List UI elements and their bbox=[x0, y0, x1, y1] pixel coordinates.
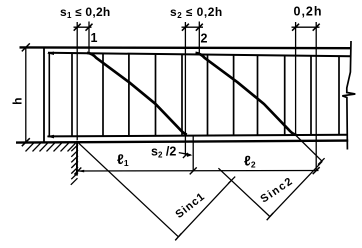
h dimension line bbox=[25, 47, 27, 142]
stirrup 7 bbox=[233, 55, 235, 135]
stirrup 8 bbox=[257, 55, 259, 135]
s1 tick left bbox=[74, 24, 81, 31]
beam top line bbox=[20, 46, 352, 49]
s2 tick left bbox=[182, 24, 189, 31]
bar1 end extension line (down to below beam) bbox=[184, 22, 186, 156]
tick at bottom of bar1-end extension bbox=[183, 153, 188, 158]
s_inc2 dimension line bbox=[270, 161, 322, 216]
0,2h tick left bbox=[292, 24, 299, 31]
beam left edge bbox=[43, 47, 45, 143]
stirrups bbox=[72, 54, 339, 137]
tick at s_inc1 vertex bbox=[175, 233, 181, 240]
bent-up bar 2 bbox=[196, 53, 297, 135]
bottom bar left arrowhead bbox=[47, 135, 54, 139]
tick at l2 end crossing bbox=[313, 167, 320, 174]
stirrup 9 bbox=[284, 55, 286, 135]
tick at s_inc2 vertex bbox=[267, 213, 273, 220]
h dim tick bottom bbox=[22, 138, 30, 146]
bar1 bend extension line bbox=[88, 22, 90, 54]
0,2h right extension line (down to l2 end) bbox=[315, 22, 317, 171]
tick at s_inc1 top end bbox=[228, 177, 235, 184]
stirrup 1 bbox=[71, 54, 73, 137]
svg-text:0,2h: 0,2h bbox=[294, 5, 323, 19]
main dimension line (l1 + l2) bbox=[77, 170, 319, 173]
stirrup 11 bbox=[338, 56, 340, 135]
svg-text:s2 /2: s2 /2 bbox=[151, 144, 176, 159]
svg-text:1: 1 bbox=[91, 31, 98, 45]
support hatching under beam bbox=[26, 143, 76, 151]
stirrup 4 bbox=[155, 54, 157, 136]
bar2 end diagonal extension bbox=[296, 136, 322, 162]
tick between l1 and l2 bbox=[190, 167, 197, 174]
stirrup 6 bbox=[207, 55, 209, 136]
s1 dimension line bbox=[74, 26, 92, 28]
s2 dimension line bbox=[182, 26, 204, 28]
support face bbox=[76, 141, 78, 176]
0,2h tick right bbox=[313, 24, 320, 31]
stirrup 3 bbox=[128, 54, 130, 136]
s2 tick right bbox=[196, 24, 203, 31]
beam right edge with break bbox=[342, 41, 355, 150]
0,2h dimension line bbox=[292, 26, 320, 28]
s_inc1 dimension line bbox=[178, 180, 231, 237]
tick at s_inc2 top end bbox=[318, 158, 325, 164]
s_inc1 left construction line bbox=[78, 142, 179, 237]
cage left vertical bbox=[48, 53, 50, 137]
bent-up bar 1 bbox=[87, 53, 187, 135]
svg-text:2: 2 bbox=[201, 32, 208, 46]
tick at l1 left end bbox=[74, 168, 81, 175]
stirrup 10 bbox=[310, 56, 312, 135]
svg-text:h: h bbox=[10, 98, 24, 105]
bottom longitudinal bar bbox=[48, 135, 348, 137]
bar2 bend extension line bbox=[198, 22, 200, 54]
stirrup 2 bbox=[102, 54, 104, 136]
l1 right extension line bbox=[192, 136, 194, 171]
stirrup 5 bbox=[181, 55, 183, 136]
tick at l2 right end bbox=[313, 167, 320, 174]
s2/2 leader arrow bbox=[179, 153, 191, 155]
h dim tick top bbox=[22, 43, 30, 51]
support face extension line (through beam) bbox=[76, 22, 78, 140]
support face hatching bbox=[71, 145, 78, 185]
top bar left arrowhead bbox=[47, 52, 54, 56]
arrow at l1 left end bbox=[78, 170, 85, 173]
s1 tick right bbox=[86, 24, 93, 31]
beam bottom line bbox=[16, 141, 348, 143]
top longitudinal bar bbox=[48, 53, 351, 56]
bar2 end extension line bbox=[295, 22, 297, 135]
s_inc2 left construction line bbox=[218, 168, 270, 216]
